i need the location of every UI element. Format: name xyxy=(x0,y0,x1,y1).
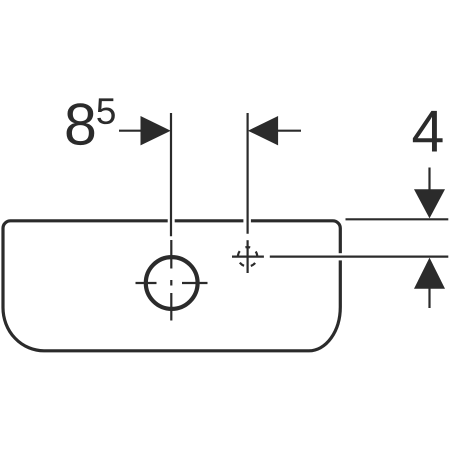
small hole vertical centerline dash xyxy=(247,240,249,273)
big hole crosshair vertical bottom dash xyxy=(170,293,172,321)
arrowhead pointing left at small hole extension line xyxy=(248,116,278,145)
big hole crosshair horizontal right dash xyxy=(182,282,208,284)
leader line of label 85 xyxy=(119,130,141,132)
dimension label 4 xyxy=(413,111,443,152)
arrowhead pointing up at lower dimension line xyxy=(414,258,445,289)
small hole horizontal centerline dash xyxy=(232,256,264,258)
tail line of up arrow xyxy=(428,288,430,308)
big hole crosshair vertical top dash xyxy=(170,240,172,269)
dimension line at tank top level xyxy=(346,218,449,220)
cistern outline xyxy=(3,221,340,351)
gap in outline top edge at right extension line xyxy=(243,217,251,225)
tail line of down arrow xyxy=(428,168,430,191)
small hole dashed circle xyxy=(238,247,257,266)
gap in outline top edge at left extension line xyxy=(168,217,175,225)
arrowhead pointing down at top dimension line xyxy=(414,189,445,218)
dimension label 85 xyxy=(67,103,95,145)
dimension line at small hole center level xyxy=(270,256,449,258)
gap in outline right edge at dimension line xyxy=(336,253,345,260)
arrowhead pointing right at big hole extension line xyxy=(141,116,171,145)
big hole circle xyxy=(146,257,198,309)
big hole crosshair horizontal left dash xyxy=(136,282,157,284)
extension line of big hole center xyxy=(170,113,172,236)
big hole center mark xyxy=(170,280,172,286)
tail line of left-pointing arrow xyxy=(278,130,301,132)
extension line of small hole center xyxy=(247,113,249,234)
